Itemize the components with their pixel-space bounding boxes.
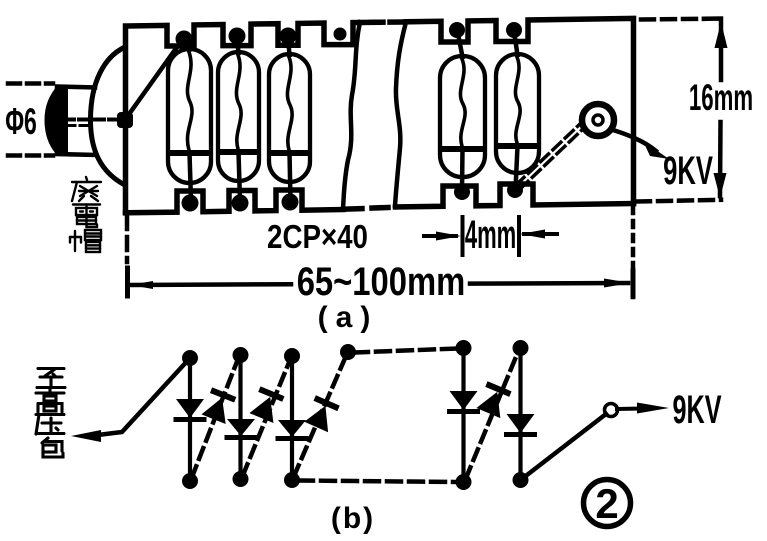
svg-text:16mm: 16mm	[689, 77, 753, 118]
svg-text:4mm: 4mm	[465, 212, 516, 257]
svg-text:2: 2	[595, 480, 618, 527]
svg-text:(a): (a)	[318, 301, 379, 334]
svg-text:2CP×40: 2CP×40	[267, 219, 368, 256]
svg-text:(b): (b)	[331, 502, 375, 535]
svg-text:9KV: 9KV	[673, 388, 723, 432]
svg-text:65~100mm: 65~100mm	[297, 259, 466, 304]
svg-text:Φ6: Φ6	[5, 100, 37, 142]
svg-text:9KV: 9KV	[663, 149, 713, 193]
